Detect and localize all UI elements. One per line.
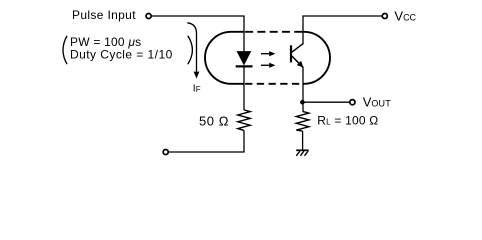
optocoupler U1 outline: right cap xyxy=(303,32,330,84)
phototransistor Q1 emitter arrow xyxy=(297,61,303,67)
right parenthesis xyxy=(188,36,193,64)
svg-text:Duty Cycle = 1/10: Duty Cycle = 1/10 xyxy=(70,47,173,61)
optocoupler U1 outline: dashed top xyxy=(244,31,303,33)
wire Pulse Input to LED anode xyxy=(152,16,244,53)
PW / Duty Cycle annotation xyxy=(63,35,192,64)
terminal bottom left xyxy=(163,149,168,154)
node junction dot xyxy=(300,100,305,105)
wire 50 ohm to bottom rail xyxy=(169,130,244,152)
LED D1 triangle xyxy=(237,51,251,65)
LED D1 cathode bar xyxy=(236,65,253,67)
left parenthesis xyxy=(63,36,67,64)
resistor RL zigzag xyxy=(296,111,309,131)
optocoupler U1 outline: dashed bottom xyxy=(244,83,303,85)
svg-text:Pulse Input: Pulse Input xyxy=(72,8,136,22)
wire RL to ground xyxy=(302,131,304,150)
phototransistor Q1 collector xyxy=(292,44,303,53)
IF current arrow xyxy=(187,23,199,79)
terminal Vcc xyxy=(382,13,387,18)
optocoupler U1 outline: left cap xyxy=(205,32,244,84)
ground xyxy=(296,150,309,156)
wire LED cathode to 50 ohm resistor xyxy=(243,68,245,111)
phototransistor Q1 emitter xyxy=(292,56,303,67)
svg-text:50 Ω: 50 Ω xyxy=(199,113,229,128)
terminal Vout xyxy=(350,100,355,105)
wire node to Vout terminal xyxy=(303,101,349,103)
resistor 50 ohm zigzag xyxy=(238,110,250,130)
light arrow lower xyxy=(261,63,275,68)
svg-text:IF: IF xyxy=(193,83,201,95)
wire emitter down through node to RL xyxy=(302,67,304,112)
light arrow upper xyxy=(261,51,275,56)
wire Vcc to collector xyxy=(303,16,382,45)
phototransistor Q1 base bar xyxy=(290,45,292,62)
terminal Pulse Input xyxy=(146,13,151,18)
